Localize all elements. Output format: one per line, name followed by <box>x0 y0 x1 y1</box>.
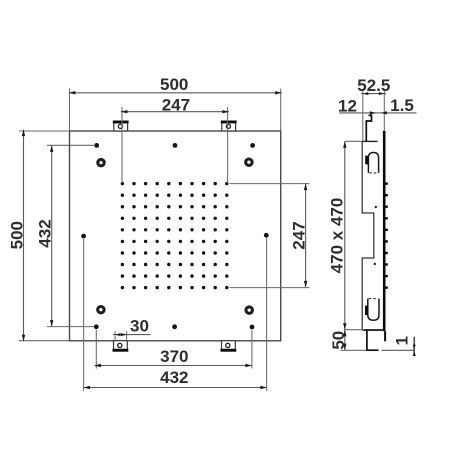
spray nozzle dot grid 10x10 <box>121 182 229 289</box>
side view: face plate heavy edge <box>383 131 386 341</box>
dimension 500 top <box>69 75 282 131</box>
side view: inlet pipe <box>366 331 414 351</box>
screw washers (4 rings) <box>98 159 253 313</box>
side view: dimension 1 <box>392 336 415 356</box>
side view: notch pin dots <box>374 206 377 265</box>
side view: body outline with notch <box>362 141 374 329</box>
svg-text:247: 247 <box>162 95 190 114</box>
svg-text:470 x 470: 470 x 470 <box>328 198 347 274</box>
side view: bracket bottom step <box>362 140 377 142</box>
top mounting tab 1 <box>113 121 129 132</box>
dimension 30 (tab offset) <box>113 316 151 339</box>
side view: dimension line 12 / 1.5 <box>338 96 416 116</box>
side view: dimension 470 <box>328 141 365 329</box>
dimension 432 left <box>35 145 94 326</box>
side view: dimension 50 <box>329 330 367 351</box>
side view: top bracket hook <box>366 115 371 141</box>
svg-text:500: 500 <box>160 75 188 94</box>
svg-text:432: 432 <box>35 219 54 247</box>
svg-text:247: 247 <box>289 221 308 249</box>
dimension 370 bottom <box>94 330 252 369</box>
bottom mounting tab 2 <box>221 341 237 352</box>
side view: top keyhole slot <box>365 153 378 173</box>
top mounting tab 2 <box>221 121 237 132</box>
plate outline (front view 500x500) <box>70 131 281 341</box>
dimension 247 top <box>121 95 229 183</box>
dimension 500 left <box>7 130 69 342</box>
side view: body bottom edge <box>362 329 384 331</box>
svg-text:52.5: 52.5 <box>357 76 390 95</box>
side view: dimension 52.5 <box>357 76 390 142</box>
svg-text:50: 50 <box>329 331 348 350</box>
svg-text:12: 12 <box>338 96 357 115</box>
svg-text:30: 30 <box>130 316 149 335</box>
svg-text:1: 1 <box>392 336 411 345</box>
side view: bottom keyhole slot <box>365 299 379 321</box>
svg-text:432: 432 <box>160 368 188 387</box>
mounting holes (8 dots) <box>81 143 268 329</box>
svg-text:370: 370 <box>160 347 188 366</box>
bottom mounting tab 1 <box>113 341 129 352</box>
svg-text:500: 500 <box>7 221 26 249</box>
svg-text:1.5: 1.5 <box>390 96 414 115</box>
side view: nozzle bumps <box>386 182 388 288</box>
dimension 432 bottom <box>84 238 267 390</box>
dimension 247 right <box>230 183 310 287</box>
